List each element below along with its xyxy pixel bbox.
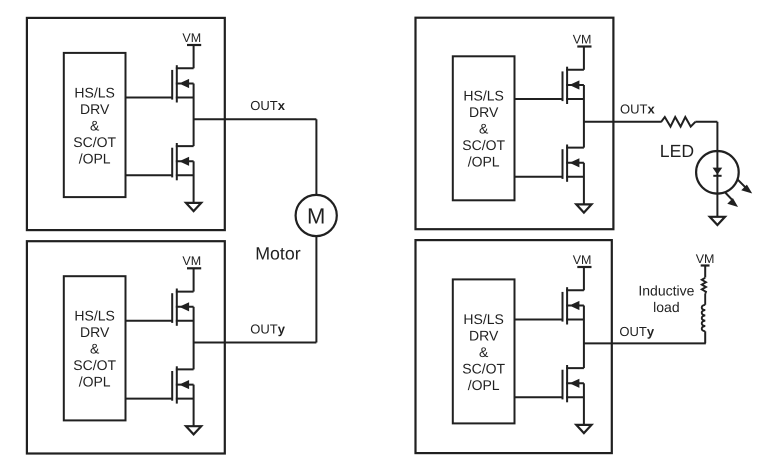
svg-text:load: load [653, 299, 679, 315]
LED emission arrow lower [725, 193, 737, 207]
wire: motor down to OUTy [315, 236, 317, 342]
svg-text:VM: VM [573, 253, 592, 267]
svg-text:Motor: Motor [255, 244, 301, 264]
VM supply (top-left) [182, 31, 201, 68]
svg-text:DRV: DRV [80, 101, 110, 117]
svg-text:&: & [90, 341, 100, 357]
transistor: high-side NMOS (bottom-right) [563, 287, 584, 324]
wire: resistor to LED [695, 121, 717, 123]
svg-text:HS/LS: HS/LS [74, 84, 114, 100]
svg-text:SC/OT: SC/OT [73, 134, 116, 150]
inner box: HS/LS driver block (top-right) [453, 56, 515, 200]
transistor: low-side NMOS (bottom-right) [563, 365, 584, 402]
svg-text:Inductive: Inductive [638, 282, 694, 298]
wire: OUTx output (top-left) [194, 118, 317, 120]
svg-text:OUTy: OUTy [619, 324, 654, 339]
wire: half-bridge output column (top-right) [583, 85, 585, 148]
wire: OUTx output (top-right) [584, 121, 662, 123]
LED D1 circle [696, 151, 739, 194]
svg-text:VM: VM [182, 254, 201, 268]
wire: gate lead of high-side FET (top-left) [126, 97, 173, 99]
wire: low-side source to ground (bottom-left) [193, 385, 195, 427]
label: HS/LS DRV &amp; SC/OT /OPL (top-right) [462, 88, 505, 170]
resistor part of inductive load [702, 278, 706, 294]
svg-text:DRV: DRV [469, 327, 499, 343]
VM supply (bottom-left) [182, 254, 201, 291]
wire: gate lead of low-side FET (bottom-left) [126, 398, 173, 400]
svg-text:SC/OT: SC/OT [462, 137, 505, 153]
VM supply (top-right) [573, 32, 592, 69]
outer box: bottom-right driver IC outline [416, 240, 612, 453]
svg-text:DRV: DRV [80, 324, 110, 340]
wire: gate lead of low-side FET (top-left) [126, 174, 173, 176]
svg-text:/OPL: /OPL [468, 154, 500, 170]
ground symbol (bottom-left) [186, 426, 201, 434]
svg-text:VM: VM [573, 32, 592, 46]
svg-text:&: & [479, 344, 489, 360]
svg-text:SC/OT: SC/OT [462, 360, 505, 376]
wire: half-bridge output column (top-left) [193, 84, 195, 147]
svg-text:HS/LS: HS/LS [463, 88, 503, 104]
svg-text:VM: VM [182, 31, 201, 45]
wire: gate lead of high-side FET (bottom-right) [515, 319, 563, 321]
outer box: bottom-left driver IC outline [27, 241, 225, 453]
resistor: series resistor on OUTx [661, 117, 695, 127]
wire: LED cathode to ground [716, 194, 718, 217]
svg-text:OUTy: OUTy [250, 321, 285, 336]
svg-text:/OPL: /OPL [79, 150, 111, 166]
wire: gate lead of low-side FET (top-right) [515, 176, 563, 178]
wire: half-bridge output column (bottom-right) [583, 306, 585, 369]
svg-text:HS/LS: HS/LS [463, 311, 503, 327]
wire: OUTy output (bottom-left) [194, 342, 317, 344]
wire: low-side source to ground (top-right) [583, 163, 585, 205]
svg-text:OUTx: OUTx [250, 98, 285, 113]
wire: low-side source to ground (top-left) [193, 161, 195, 203]
label: HS/LS DRV &amp; SC/OT /OPL (top-left) [73, 84, 116, 166]
transistor: high-side NMOS (bottom-left) [172, 289, 193, 326]
VM supply (bottom-right) [573, 253, 592, 290]
wire: inductor to OUTy corner [704, 331, 706, 343]
svg-text:/OPL: /OPL [468, 377, 500, 393]
transistor: low-side NMOS (bottom-left) [172, 366, 193, 403]
wire: low-side source to ground (bottom-right) [583, 383, 585, 425]
inductor part of inductive load [702, 305, 705, 331]
motor M1 circle [296, 195, 337, 236]
inner box: HS/LS driver block (bottom-right) [453, 279, 515, 423]
outer box: top-left driver IC outline [27, 18, 225, 230]
svg-text:HS/LS: HS/LS [74, 308, 114, 324]
svg-text:&: & [90, 117, 100, 133]
wire: gate lead of low-side FET (bottom-right) [515, 396, 563, 398]
LED emission arrow upper [738, 180, 751, 193]
inner box: HS/LS driver block (top-left) [64, 53, 126, 197]
wire: resistor to inductor (load) [704, 294, 706, 305]
outer box: top-right driver IC outline [416, 18, 614, 230]
wire: half-bridge output column (bottom-left) [193, 307, 195, 370]
wire: gate lead of high-side FET (bottom-left) [126, 320, 173, 322]
ground symbol (top-right) [576, 204, 591, 212]
VM supply (inductive load) [696, 252, 715, 278]
label: Inductive load [638, 282, 694, 315]
svg-text:OUTx: OUTx [620, 101, 655, 116]
LED diode symbol [713, 151, 721, 193]
svg-text:&: & [479, 121, 489, 137]
transistor: low-side NMOS (top-left) [172, 143, 193, 180]
svg-text:VM: VM [696, 252, 715, 266]
wire: gate lead of high-side FET (top-right) [515, 98, 563, 100]
ground symbol (top-left) [186, 203, 201, 211]
inner box: HS/LS driver block (bottom-left) [64, 276, 126, 420]
svg-text:DRV: DRV [469, 104, 499, 120]
svg-text:/OPL: /OPL [79, 374, 111, 390]
transistor: low-side NMOS (top-right) [563, 145, 584, 182]
wire: OUTx down to motor [315, 119, 317, 195]
label: HS/LS DRV &amp; SC/OT /OPL (bottom-left) [73, 308, 116, 390]
transistor: high-side NMOS (top-right) [563, 67, 584, 104]
ground symbol (bottom-right) [576, 425, 591, 433]
svg-text:LED: LED [660, 141, 694, 161]
wire: OUTy output (bottom-right) [584, 342, 706, 344]
svg-text:SC/OT: SC/OT [73, 357, 116, 373]
label: HS/LS DRV &amp; SC/OT /OPL (bottom-right) [462, 311, 505, 393]
transistor: high-side NMOS (top-left) [172, 65, 193, 102]
ground symbol (LED) [710, 217, 725, 225]
svg-text:M: M [307, 204, 325, 229]
